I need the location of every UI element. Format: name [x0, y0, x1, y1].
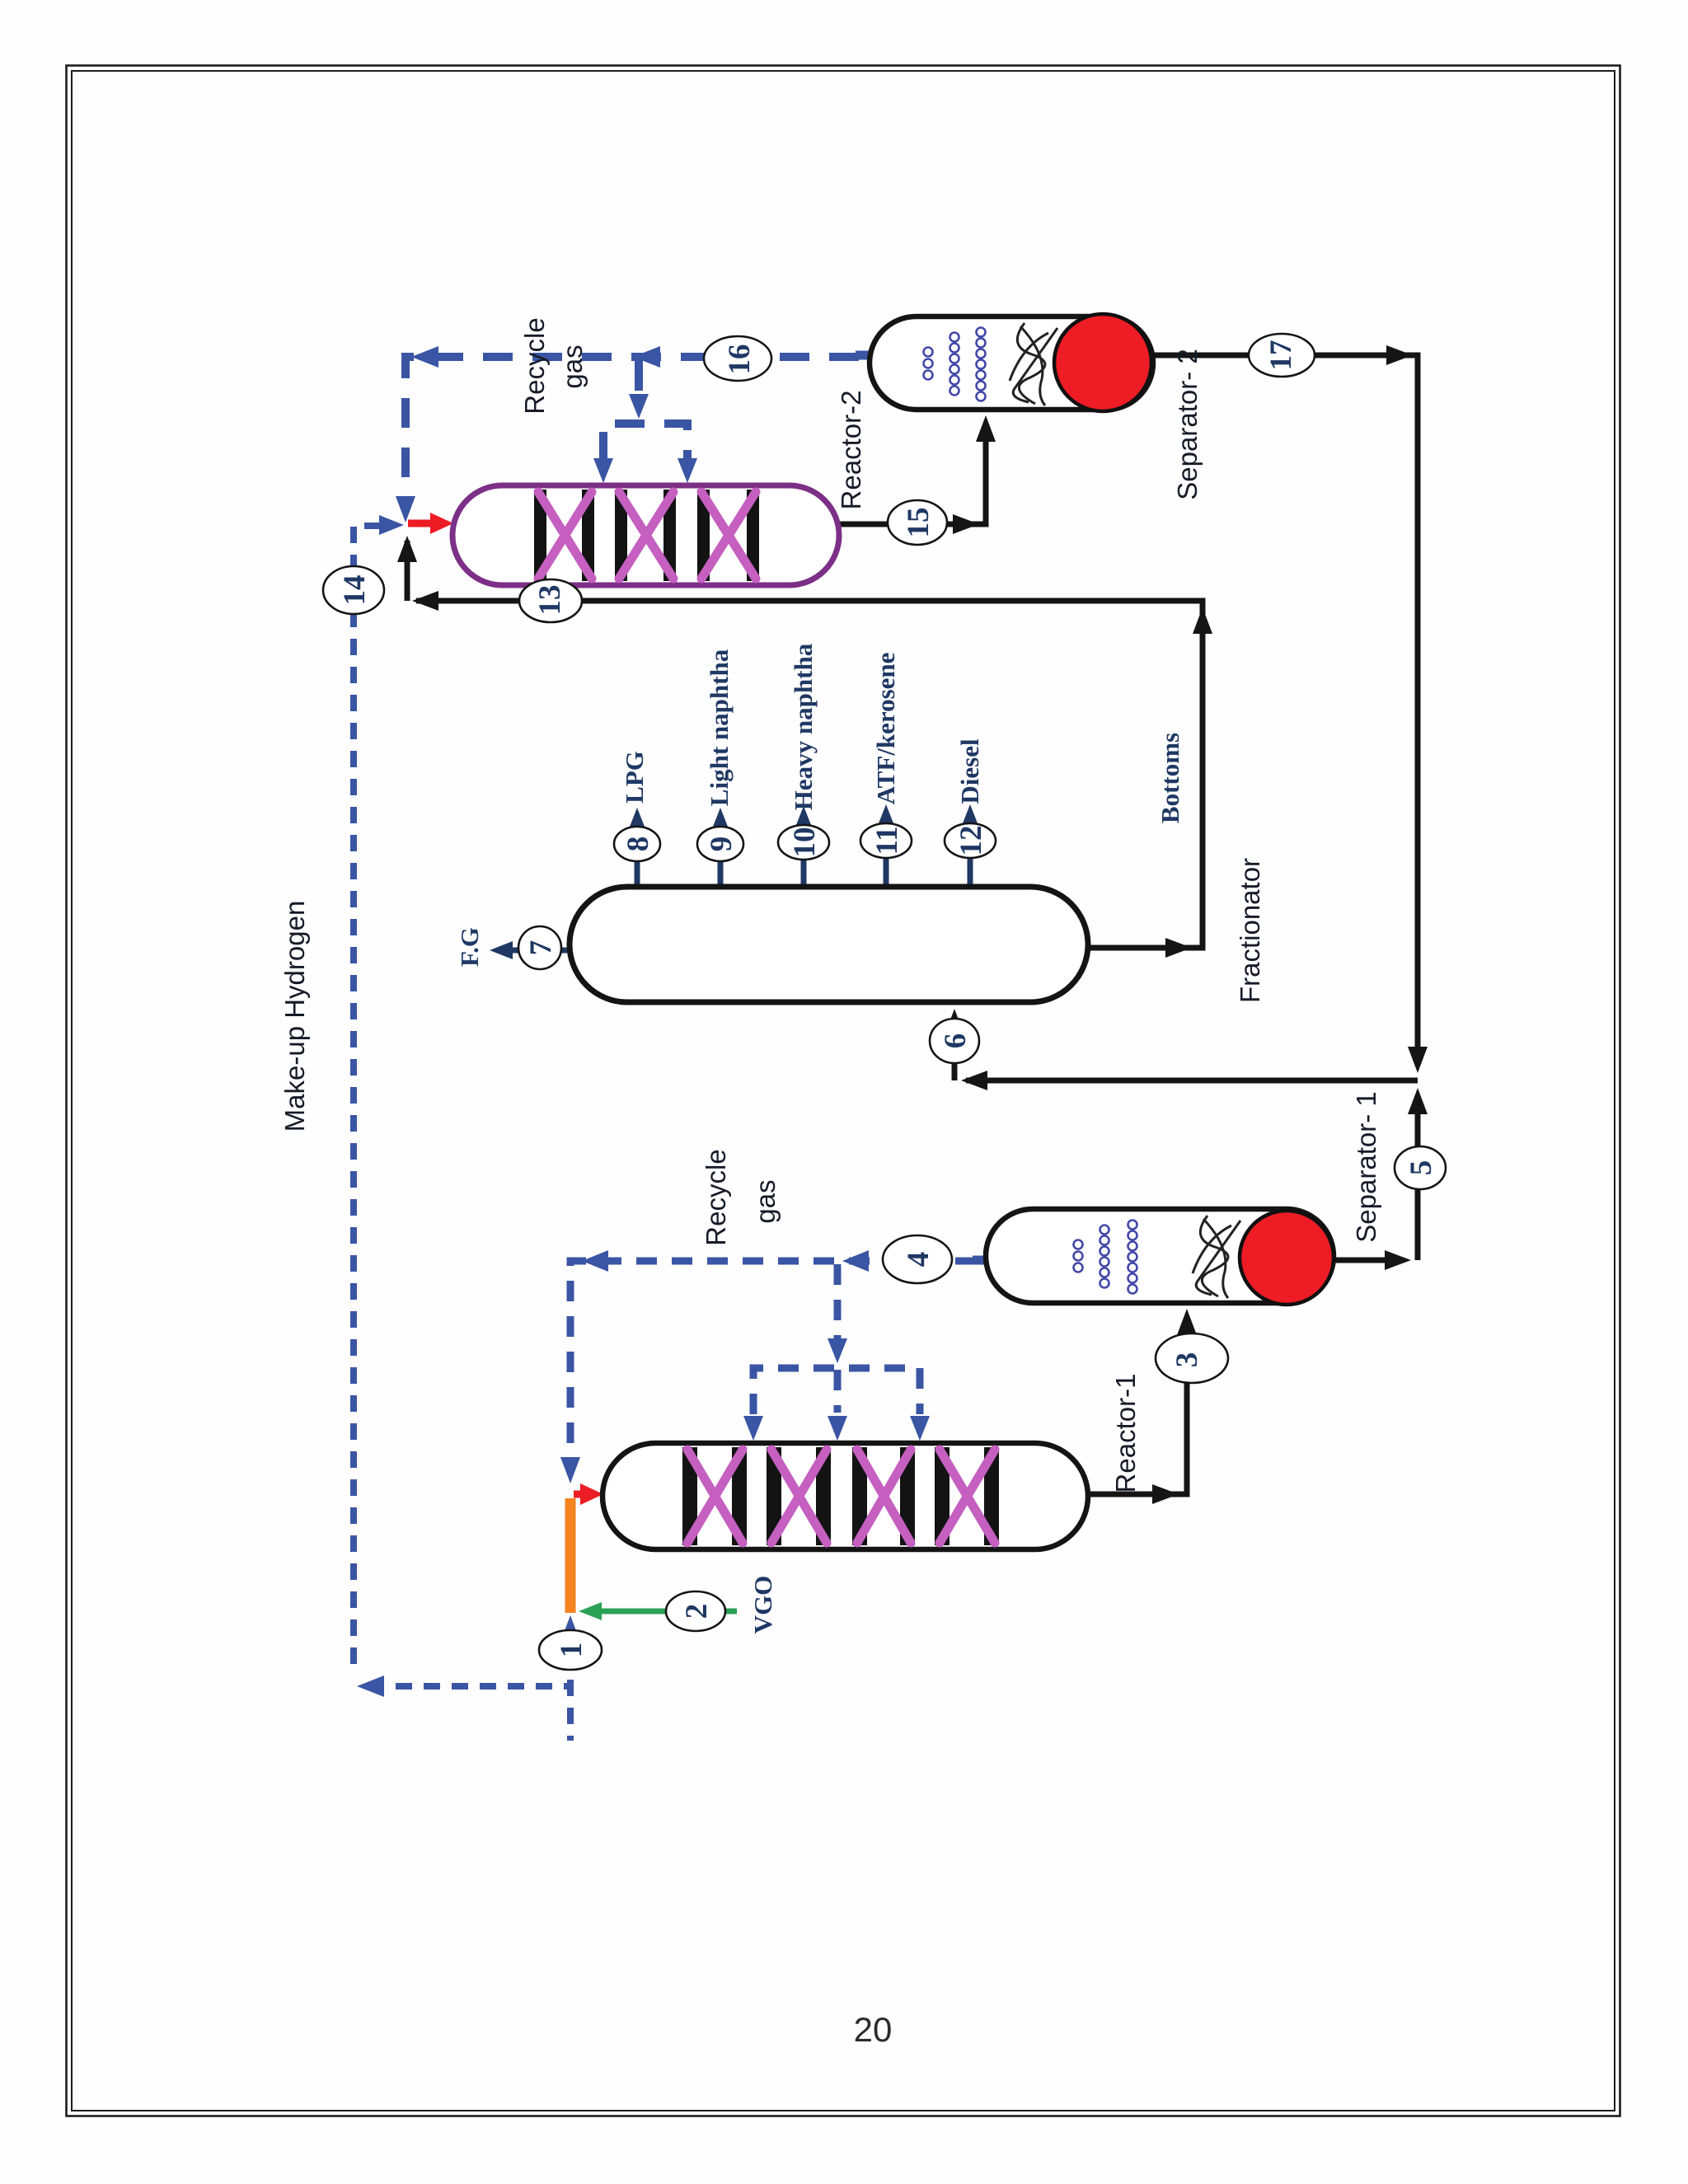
- arrow 15 right before corner: [953, 514, 979, 534]
- dot column 2 separator-1: [1100, 1226, 1109, 1235]
- svg-text:Separator- 2: Separator- 2: [1172, 349, 1203, 499]
- node 14: [323, 566, 384, 614]
- arrow red reactor-1 inlet: [574, 1491, 582, 1498]
- node 5: [1395, 1146, 1446, 1189]
- arrow reactor-2 quench right down: [678, 458, 697, 483]
- blue stub separator-1 inlet: [973, 1256, 991, 1265]
- arrow reactor-1 quench right down: [910, 1416, 930, 1441]
- wire recycle gas 16: separator-2 to reactor-2 feed: [406, 357, 859, 504]
- arrow 16 left at quench branch: [633, 346, 660, 368]
- svg-text:2: 2: [680, 1604, 714, 1619]
- svg-text:Reactor-2: Reactor-2: [836, 391, 866, 510]
- catalyst bed X reactor-1 #2: [771, 1450, 827, 1543]
- wire VGO green line: [600, 1609, 737, 1615]
- dot column 1 separator-2: [924, 348, 933, 357]
- svg-text:17: 17: [1264, 340, 1298, 371]
- svg-text:8: 8: [621, 837, 655, 852]
- wire ATF/kerosene draw 11: [884, 824, 889, 888]
- catalyst bed X reactor-2 #3: [701, 492, 756, 579]
- svg-text:12: 12: [954, 826, 988, 856]
- wire orange feed riser: [565, 1498, 576, 1613]
- svg-text:9: 9: [705, 837, 738, 852]
- dot column 3 separator-1: [1128, 1221, 1137, 1230]
- svg-text:7: 7: [524, 940, 558, 956]
- svg-text:1: 1: [555, 1643, 588, 1658]
- svg-text:3: 3: [1170, 1352, 1204, 1368]
- arrow bottoms right before corner: [1165, 938, 1192, 958]
- dot column 3 separator-2: [977, 328, 986, 337]
- catalyst bed X reactor-1 #1: [687, 1450, 743, 1543]
- dot column 2 separator-2: [950, 333, 959, 342]
- arrow bottoms riser up: [1193, 607, 1212, 634]
- wire reactor-1 quench manifold: [753, 1368, 920, 1414]
- wire stream 15: reactor-2 outlet elbow up to separator-2: [839, 438, 986, 524]
- wire F.G line: [511, 948, 577, 954]
- wire stream 6 feed: junction to fractionator: [966, 1078, 1418, 1084]
- wire LPG draw 8: [635, 827, 640, 888]
- svg-text:11: 11: [870, 827, 904, 855]
- svg-text:10: 10: [788, 827, 822, 858]
- svg-text:20: 20: [854, 2010, 893, 2049]
- wire stream 3: reactor-1 outlet elbow up to separator-1: [1088, 1333, 1187, 1494]
- catalyst bed X reactor-1 #4: [940, 1450, 995, 1543]
- node 11: [860, 823, 912, 858]
- wire make-up hydrogen riser (left side): [354, 526, 381, 1675]
- liquid boot red ball separator-2: [1054, 314, 1151, 411]
- wire reactor-1 quench feeder: [834, 1264, 842, 1352]
- svg-text:gas: gas: [750, 1179, 781, 1223]
- svg-text:Separator- 1: Separator- 1: [1351, 1091, 1381, 1242]
- svg-text:13: 13: [533, 585, 567, 616]
- arrow 16 left at corner: [411, 346, 438, 368]
- node 8: [614, 827, 660, 861]
- reactor R-1 vessel: [603, 1443, 1088, 1549]
- node 4: [883, 1235, 952, 1283]
- wire stream 17: separator-2 outlet to right then down to junction: [1153, 355, 1418, 1058]
- dot column 1 separator-1: [1074, 1240, 1083, 1249]
- node 6: [930, 1019, 979, 1063]
- demister mesh separator-2: [1010, 323, 1057, 405]
- arrow reactor-1 quench left down: [743, 1416, 763, 1441]
- node 10: [778, 825, 829, 860]
- bed bars reactor-2: [534, 490, 546, 581]
- node 17: [1249, 334, 1315, 377]
- node 16: [704, 336, 771, 381]
- wire 13 riser into reactor-2 feed: [405, 541, 410, 601]
- arrow 16 branch down into reactor-2 feed junction: [396, 496, 415, 523]
- demister mesh separator-1: [1193, 1216, 1240, 1298]
- svg-text:4: 4: [902, 1252, 935, 1268]
- catalyst bed X reactor-1 #3: [857, 1450, 911, 1543]
- separator S-2 vessel: [870, 316, 1153, 410]
- arrow 4 left at corner: [582, 1250, 608, 1272]
- node 13: [519, 579, 582, 622]
- wire reactor-2 quench manifold: [603, 424, 687, 462]
- arrow 17 down into junction: [1408, 1047, 1428, 1073]
- wire reactor-2 quench feeder: [635, 361, 643, 396]
- svg-text:16: 16: [723, 344, 757, 375]
- fractionator vessel: [570, 887, 1088, 1002]
- wire hydrogen supply vertical through stream 1: [567, 1624, 574, 1741]
- svg-text:F.G: F.G: [455, 927, 484, 967]
- svg-text:5: 5: [1404, 1160, 1438, 1176]
- node 2: [666, 1591, 725, 1631]
- svg-text:ATF/kerosene: ATF/kerosene: [871, 653, 900, 805]
- node 1: [539, 1630, 602, 1670]
- catalyst bed X reactor-2 #1: [538, 492, 592, 579]
- arrow red reactor-2 inlet: [408, 520, 432, 527]
- node 15: [888, 500, 947, 545]
- arrow reactor-2 quench left down: [593, 458, 613, 483]
- svg-text:Diesel: Diesel: [955, 738, 984, 804]
- arrow reactor-1 quench feeder down: [828, 1338, 847, 1363]
- node 7: [518, 926, 561, 969]
- arrow 3 right before corner: [1152, 1484, 1179, 1504]
- separator S-1 vessel: [986, 1209, 1334, 1303]
- arrow 4 down into reactor-1 feed junction: [560, 1457, 580, 1483]
- arrow reactor-2 quench feeder down: [629, 394, 649, 419]
- arrow 13 riser up into reactor-2 feed: [397, 536, 417, 562]
- bed bars reactor-1: [682, 1447, 697, 1545]
- wire recycle gas 4: separator-1 to reactor-1 feed: [570, 1261, 976, 1460]
- arrow 6 riser up into fractionator: [945, 1009, 964, 1035]
- arrow make-up bottom left at corner: [357, 1675, 384, 1697]
- wire stream 5: separator-1 outlet right and up: [1335, 1258, 1393, 1263]
- wire reactor-1 quench branch mid: [834, 1370, 842, 1413]
- svg-text:Make-up Hydrogen: Make-up Hydrogen: [279, 901, 310, 1132]
- wire light naphtha draw 9: [718, 827, 724, 888]
- reactor R-2 vessel: [452, 485, 839, 585]
- arrow reactor-1 quench mid down: [828, 1416, 847, 1441]
- svg-text:15: 15: [902, 508, 935, 538]
- svg-text:Recycle: Recycle: [519, 317, 550, 414]
- svg-text:Heavy naphtha: Heavy naphtha: [789, 643, 818, 810]
- arrow separator-1 outlet right: [1385, 1250, 1411, 1270]
- svg-text:14: 14: [338, 575, 372, 606]
- arrow make-up right into reactor-2 feed junction: [379, 515, 404, 535]
- wire heavy naphtha draw 10: [801, 826, 807, 888]
- svg-text:Reactor-1: Reactor-1: [1110, 1374, 1141, 1493]
- svg-text:LPG: LPG: [620, 751, 649, 804]
- arrow hydrogen supply up into junction 1: [560, 1615, 580, 1642]
- liquid boot red ball separator-1: [1240, 1211, 1334, 1305]
- svg-text:6: 6: [939, 1033, 973, 1049]
- catalyst bed X reactor-2 #2: [619, 492, 673, 579]
- blue stub separator-2 inlet: [856, 351, 874, 360]
- arrow 17 right before corner: [1386, 345, 1413, 365]
- node 9: [697, 827, 743, 861]
- wire diesel draw 12: [968, 824, 973, 888]
- arrow 4 left at quench branch: [842, 1250, 869, 1272]
- node 12: [945, 823, 996, 858]
- wire bottoms: fractionator right end, up and left to reactor-2 riser (stream 13): [416, 601, 1203, 948]
- node 3: [1156, 1333, 1228, 1383]
- arrow 3 riser up into separator-1: [1177, 1309, 1197, 1335]
- svg-text:VGO: VGO: [748, 1576, 777, 1634]
- svg-text:Bottoms: Bottoms: [1156, 733, 1184, 823]
- svg-text:Light naphtha: Light naphtha: [705, 649, 734, 806]
- wire make-up hydrogen bottom horizontal: [368, 1683, 570, 1690]
- svg-text:Fractionator: Fractionator: [1235, 858, 1265, 1003]
- svg-text:gas: gas: [557, 344, 588, 388]
- arrow VGO left into junction: [579, 1602, 602, 1620]
- svg-text:Recycle: Recycle: [701, 1149, 731, 1245]
- arrow 5 up into junction: [1408, 1088, 1428, 1114]
- arrow 6 left into riser: [961, 1071, 987, 1090]
- arrow 13 left at corner: [412, 591, 438, 611]
- arrow 15 riser up into separator-2: [976, 415, 996, 442]
